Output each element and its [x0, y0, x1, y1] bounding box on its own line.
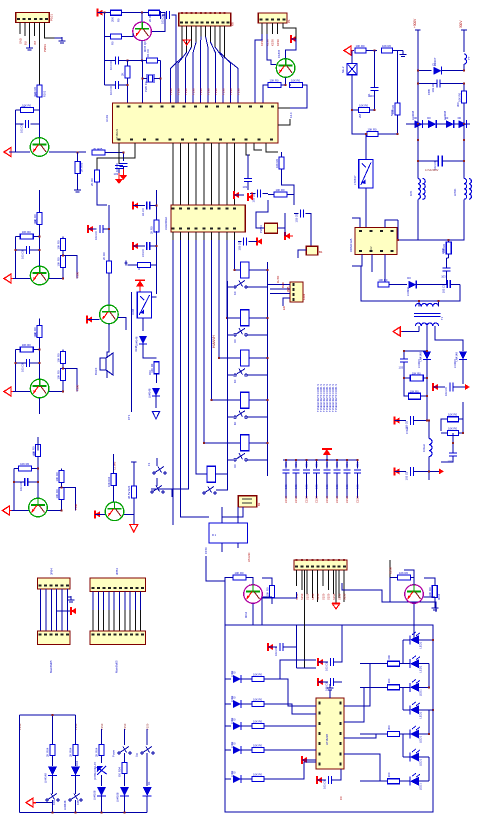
ground T1: [393, 327, 400, 336]
wire: [123, 774, 125, 787]
svg-text:103 C0: 103 C0: [109, 61, 113, 70]
relay K103: [241, 350, 250, 366]
wire tap: [63, 256, 77, 279]
power arrow: [234, 192, 239, 198]
diode D305: [120, 787, 129, 796]
wire bias: [15, 349, 20, 351]
wire U102 out2: [151, 232, 188, 489]
wire bridge dn: [417, 124, 419, 178]
capacitor C106: [115, 56, 117, 64]
wire colE: [146, 729, 148, 745]
svg-text:AVB: AVB: [286, 286, 290, 292]
wire left rail: [104, 13, 106, 85]
wire P201 pin2 long: [304, 570, 306, 668]
svg-text:YT: YT: [467, 56, 471, 60]
wire relay left rail: [226, 281, 228, 464]
wire CON3 p4: [283, 298, 290, 306]
power arrow: [257, 239, 262, 245]
wire colA: [52, 715, 54, 745]
resistor R202: [382, 48, 393, 53]
wire U102 out1: [181, 232, 209, 517]
wire P201 pin4: [311, 570, 313, 598]
wire T1 feed: [398, 207, 418, 240]
wire d-r: [241, 725, 252, 727]
capacitor C302: [330, 658, 332, 666]
wire K105 sw: [247, 459, 267, 461]
wire: [247, 155, 248, 170]
transformer T201: [418, 179, 421, 200]
svg-text:LED1: LED1: [419, 759, 423, 766]
wire U101 seg5: [211, 143, 213, 205]
wire U101 seg6: [218, 143, 220, 205]
resistor R102: [21, 108, 34, 113]
capacitor C210: [410, 467, 412, 476]
svg-text:103 C0: 103 C0: [20, 124, 24, 133]
svg-text:D0: D0: [458, 116, 462, 120]
svg-text:K0: K0: [233, 464, 237, 468]
inductor L201: [429, 439, 432, 457]
wire P103 pin4: [195, 26, 197, 42]
wire emitter Q108: [118, 318, 126, 331]
svg-text:D+5D: D+5D: [276, 276, 280, 283]
svg-text:470uF: 470uF: [405, 426, 409, 434]
svg-text:BUZZ: BUZZ: [94, 367, 98, 375]
svg-text:OKI: OKI: [148, 370, 152, 375]
svg-text:K0: K0: [233, 379, 237, 383]
switch K106: [203, 492, 205, 494]
wire K101 swl: [227, 286, 233, 288]
wire T1 top: [418, 301, 420, 307]
svg-text:103 C0: 103 C0: [325, 682, 329, 691]
wire JP101 dn1: [221, 543, 223, 552]
neon NE201: [347, 64, 357, 75]
svg-text:10K R0: 10K R0: [20, 462, 29, 466]
wire colC: [101, 729, 103, 745]
wire Q108 down: [107, 324, 109, 358]
capacitor C301: [279, 643, 281, 651]
svg-text:T1S0: T1S0: [222, 88, 226, 95]
wire Q101 emitter row: [49, 151, 86, 153]
relay K106: [207, 466, 216, 482]
jumper JP101: [209, 523, 248, 543]
svg-text:10K R0: 10K R0: [22, 230, 31, 234]
svg-text:C0 C0: C0 C0: [141, 249, 145, 257]
wire feed Q107: [113, 454, 115, 474]
svg-text:10K R0: 10K R0: [56, 353, 60, 362]
svg-text:S1S0: S1S0: [337, 593, 341, 600]
svg-text:10K R0: 10K R0: [253, 719, 262, 723]
wire LED3 ends: [403, 686, 410, 688]
svg-text:C01: C01: [304, 462, 308, 467]
transistor Q108: [100, 305, 119, 324]
terminal 300V R: [463, 30, 465, 34]
wire d-r: [241, 749, 252, 751]
resistor top: [37, 326, 42, 338]
svg-text:AT.GND: AT.GND: [247, 553, 251, 562]
wire: [74, 756, 76, 767]
svg-text:103 C0: 103 C0: [109, 86, 113, 95]
svg-text:103: 103: [284, 484, 288, 489]
wire P201 pin8: [333, 570, 335, 594]
svg-text:OK R04: OK R04: [117, 767, 121, 777]
junction dots power: [417, 70, 419, 72]
crystal X101: [142, 60, 144, 103]
svg-text:10K: 10K: [34, 332, 38, 337]
wire: [62, 381, 64, 392]
svg-text:10K R0: 10K R0: [22, 343, 31, 347]
svg-text:10K R0: 10K R0: [55, 489, 59, 498]
svg-text:T1S0: T1S0: [237, 88, 241, 95]
svg-text:F1: F1: [147, 462, 151, 466]
wire: [146, 753, 148, 786]
wire colD: [123, 729, 125, 745]
svg-text:103 C0: 103 C0: [405, 471, 409, 480]
IC U101 body: [113, 103, 279, 143]
resistor top: [36, 445, 41, 457]
wire opto down: [365, 188, 367, 227]
svg-text:10K R0: 10K R0: [291, 78, 300, 82]
svg-text:P1: P1: [287, 19, 291, 23]
svg-text:BVD: BVD: [281, 282, 285, 288]
wire row1: [127, 59, 146, 61]
capacitor bank C7: [346, 460, 348, 469]
wire: [74, 776, 76, 795]
capacitor bank C1: [285, 460, 287, 469]
wire P103 pin6: [205, 26, 207, 37]
svg-text:R0: R0: [117, 18, 121, 22]
wire collector: [39, 237, 41, 267]
resistor R131: [111, 474, 116, 486]
wire K101 sw: [247, 286, 267, 288]
svg-text:C0: C0: [339, 796, 343, 800]
transistor Q202: [405, 585, 424, 604]
svg-text:LN60: LN60: [230, 670, 234, 677]
wire bank rail: [283, 459, 359, 461]
wire P201 right: [342, 583, 430, 602]
wire NE top: [351, 51, 353, 64]
resistor R301: [50, 745, 55, 756]
resistor R205: [367, 132, 378, 137]
resistor R111: [290, 83, 303, 88]
wire U102 out7: [227, 232, 241, 318]
capacitor C303: [330, 678, 332, 686]
svg-text:103 C0: 103 C0: [161, 15, 165, 24]
svg-text:C1S0: C1S0: [294, 496, 298, 503]
svg-text:300: 300: [456, 102, 460, 107]
svg-text:T1S0: T1S0: [177, 88, 181, 95]
wire K103 sw: [247, 374, 267, 376]
wire: [101, 756, 103, 764]
resistor R303: [99, 745, 104, 756]
wire: [101, 775, 103, 786]
ground P201: [335, 570, 337, 603]
wire U101 seg2: [187, 143, 189, 205]
wire stub: [175, 26, 177, 103]
wire below Q105: [39, 398, 41, 414]
connector P105 bottom: [38, 631, 71, 645]
wire sec right: [435, 326, 463, 351]
wire: [146, 796, 148, 813]
svg-text:LED1: LED1: [419, 783, 423, 790]
svg-text:MainBd05: MainBd05: [115, 660, 119, 673]
wire K102 sw: [247, 334, 267, 336]
wire ribbon2 w7: [124, 592, 126, 611]
svg-text:10K R0: 10K R0: [368, 127, 377, 131]
diode D401: [225, 678, 231, 680]
svg-text:K0: K0: [233, 339, 237, 343]
diode D405: [225, 778, 231, 780]
resistor R302: [73, 745, 78, 756]
resistor R403: [398, 575, 411, 580]
node dots: [39, 349, 41, 351]
wire ribbon2 w10: [140, 592, 142, 611]
wire down: [262, 95, 264, 103]
svg-text:LN4108: LN4108: [93, 790, 97, 800]
ground C104: [122, 169, 124, 175]
power arrow: [4, 274, 11, 283]
wire LED1 ends: [403, 639, 410, 641]
wire Q102 bottom: [141, 41, 143, 61]
wire: [298, 250, 306, 258]
resistor R106: [148, 10, 159, 15]
svg-text:S1S0: S1S0: [306, 593, 310, 600]
relay K105: [241, 435, 250, 451]
ground C302: [318, 659, 323, 665]
svg-text:2M: 2M: [358, 113, 362, 118]
wire U101 pin b12: [246, 143, 250, 155]
svg-text:C01: C01: [335, 462, 339, 467]
wire d-r: [241, 703, 252, 705]
svg-text:C1S0: C1S0: [304, 496, 308, 503]
wire P104 pin5: [283, 23, 296, 39]
svg-text:10K R0: 10K R0: [235, 571, 244, 575]
wire U101 pin b1: [118, 143, 120, 164]
wire ic right2: [344, 687, 388, 722]
wire: [62, 268, 64, 279]
bridge diodes row: [406, 123, 470, 125]
capacitor C110: [244, 178, 252, 180]
svg-text:10K R0: 10K R0: [56, 370, 60, 379]
resistor R203: [359, 108, 370, 113]
svg-text:MainBd05: MainBd05: [49, 660, 53, 673]
wire: [101, 796, 103, 813]
wire P201 pin6: [322, 570, 324, 586]
svg-text:10K: 10K: [32, 451, 36, 456]
svg-text:2K R0: 2K R0: [90, 178, 94, 186]
svg-text:240K: 240K: [441, 248, 445, 254]
wire P201 pin3: [306, 570, 308, 594]
wire P101 pin5: [39, 22, 41, 85]
wire P201 pin1: [296, 570, 298, 586]
wire: [52, 776, 54, 795]
wire R pair: [462, 402, 464, 433]
svg-text:LN60: LN60: [230, 717, 234, 724]
power arrow Q107: [95, 511, 100, 517]
wire ribbon2 w2: [97, 592, 99, 611]
power flag Q107: [130, 524, 138, 526]
wire R132 dn: [133, 498, 135, 525]
capacitor C205: [446, 280, 448, 288]
wire U102 bottom stubs: [172, 232, 174, 240]
LED D424: [410, 705, 419, 714]
wire P101 pin3: [29, 22, 31, 44]
svg-text:103 C0: 103 C0: [444, 387, 448, 396]
svg-text:K1S0: K1S0: [271, 39, 275, 46]
resistor R104: [75, 161, 80, 173]
wire P103 pin5: [200, 26, 202, 37]
optocoupler U103: [137, 292, 151, 318]
svg-text:CON: CON: [302, 294, 306, 300]
capacitor C117: [146, 202, 148, 210]
svg-text:10K R0: 10K R0: [276, 188, 285, 192]
wire base: [105, 35, 111, 37]
resistor R207: [446, 242, 451, 254]
ground C304: [317, 777, 322, 783]
wire: [123, 796, 125, 813]
svg-text:LED1: LED1: [419, 641, 423, 648]
svg-text:2K R0: 2K R0: [148, 14, 152, 22]
wire P201 pin2: [301, 570, 303, 590]
wire U102 out5: [212, 232, 241, 400]
resistor R204: [395, 103, 400, 115]
resistor R424: [388, 779, 400, 784]
diode D306: [143, 787, 152, 796]
wire chain v6: [428, 757, 430, 781]
power arrow top: [133, 203, 138, 209]
svg-text:2K R0: 2K R0: [102, 252, 106, 260]
capacitor C207: [449, 383, 451, 392]
ground 18V: [433, 384, 438, 390]
wire LED5 ends: [403, 733, 410, 735]
wire emitter row: [47, 510, 61, 512]
svg-text:10K: 10K: [21, 105, 26, 109]
wire P101 pin2: [24, 22, 26, 36]
capacitor C203: [437, 156, 439, 167]
svg-text:FR107: FR107: [433, 57, 437, 66]
wire P201 pin7: [327, 570, 329, 590]
resistor top: [37, 213, 42, 225]
svg-text:T1S0: T1S0: [76, 271, 80, 278]
wire LED4 ends: [403, 709, 410, 711]
wire chain v1: [402, 640, 404, 664]
resistor R401: [233, 575, 246, 580]
diode D301: [48, 767, 57, 776]
wire Q108 main: [108, 205, 110, 261]
capacitor C108: [166, 11, 168, 19]
wire Q202 e: [423, 596, 435, 598]
wire: [282, 176, 295, 194]
svg-text:10K R0: 10K R0: [253, 697, 262, 701]
svg-text:10K R0: 10K R0: [253, 672, 262, 676]
svg-text:LN4448: LN4448: [63, 800, 67, 810]
svg-text:LN4148: LN4148: [147, 388, 151, 398]
wire: [52, 756, 54, 767]
wire: [156, 374, 158, 383]
capacitor bank C5: [326, 460, 328, 469]
svg-text:U2: U2: [369, 246, 373, 250]
wire ribbon1 w5: [61, 589, 63, 631]
wire ribbon1 w1: [40, 589, 42, 631]
wire rail R: [463, 34, 465, 52]
fan switch F2: [151, 491, 153, 493]
wire res: [360, 663, 388, 665]
wire P201 pin9: [338, 570, 340, 598]
wire opto top: [139, 290, 141, 293]
wire U102 out3: [196, 232, 207, 474]
svg-text:LN4148: LN4148: [44, 773, 48, 783]
wire collector: [37, 469, 39, 499]
svg-text:103: 103: [355, 484, 359, 489]
wire: [155, 396, 157, 408]
wire P104 pin1 down: [255, 34, 262, 103]
wire JP101 dn2: [237, 543, 239, 548]
node: [285, 84, 287, 86]
wire P104 pin3: [271, 23, 273, 34]
svg-text:10K R0: 10K R0: [399, 571, 408, 575]
svg-text:103: 103: [304, 484, 308, 489]
switch SD: [118, 752, 120, 754]
svg-text:T1S0: T1S0: [229, 88, 233, 95]
ground U301: [302, 757, 307, 763]
svg-text:LTV817: LTV817: [353, 175, 357, 185]
wire K102 swl: [227, 334, 233, 336]
node: [155, 205, 157, 207]
wire: [60, 469, 62, 471]
transistor Q201: [244, 585, 263, 604]
svg-text:10K R0: 10K R0: [359, 103, 368, 107]
svg-text:D0: D0: [407, 276, 411, 280]
wire T201 dn: [417, 199, 419, 207]
power flag: [183, 40, 190, 45]
wire P104 pin2: [266, 23, 268, 34]
transformer T203 primary: [415, 304, 438, 307]
resistor R414: [252, 748, 264, 753]
svg-text:300: 300: [387, 678, 391, 683]
svg-text:LPNK: LPNK: [453, 189, 457, 196]
svg-text:ULN2003A: ULN2003A: [164, 217, 168, 230]
resistor R404: [432, 586, 437, 598]
wire U102 out0: [172, 232, 174, 525]
svg-text:D04: D04: [75, 760, 79, 766]
switch K105: [234, 459, 236, 461]
wire ribbon2 w4: [108, 592, 110, 611]
wire U101 pin b2: [97, 143, 135, 170]
svg-text:300V: 300V: [459, 20, 463, 28]
switch SE: [141, 752, 143, 754]
node bridge L: [417, 123, 419, 125]
svg-text:100uH: 100uH: [422, 444, 426, 452]
wire D208 dn: [462, 360, 464, 385]
svg-text:10K R0: 10K R0: [382, 44, 391, 48]
node: [126, 84, 128, 86]
capacitor C201: [371, 87, 379, 89]
wire U101 seg1: [180, 143, 182, 205]
svg-text:S1S0: S1S0: [316, 593, 320, 600]
resistor load1: [61, 352, 66, 364]
ground U301 top: [329, 684, 331, 688]
wire grid top rail: [19, 714, 75, 716]
wire ribbon1 w4: [56, 589, 58, 631]
resistor bias: [20, 347, 33, 352]
svg-text:10K R0: 10K R0: [56, 240, 60, 249]
buzzer BZ101: [100, 358, 106, 370]
connector CON3: [290, 282, 303, 302]
ground: [344, 46, 351, 55]
relay K101: [241, 262, 250, 278]
capacitor C112: [300, 210, 302, 218]
switch K104: [234, 416, 236, 418]
svg-text:CT1: CT1: [127, 414, 131, 420]
